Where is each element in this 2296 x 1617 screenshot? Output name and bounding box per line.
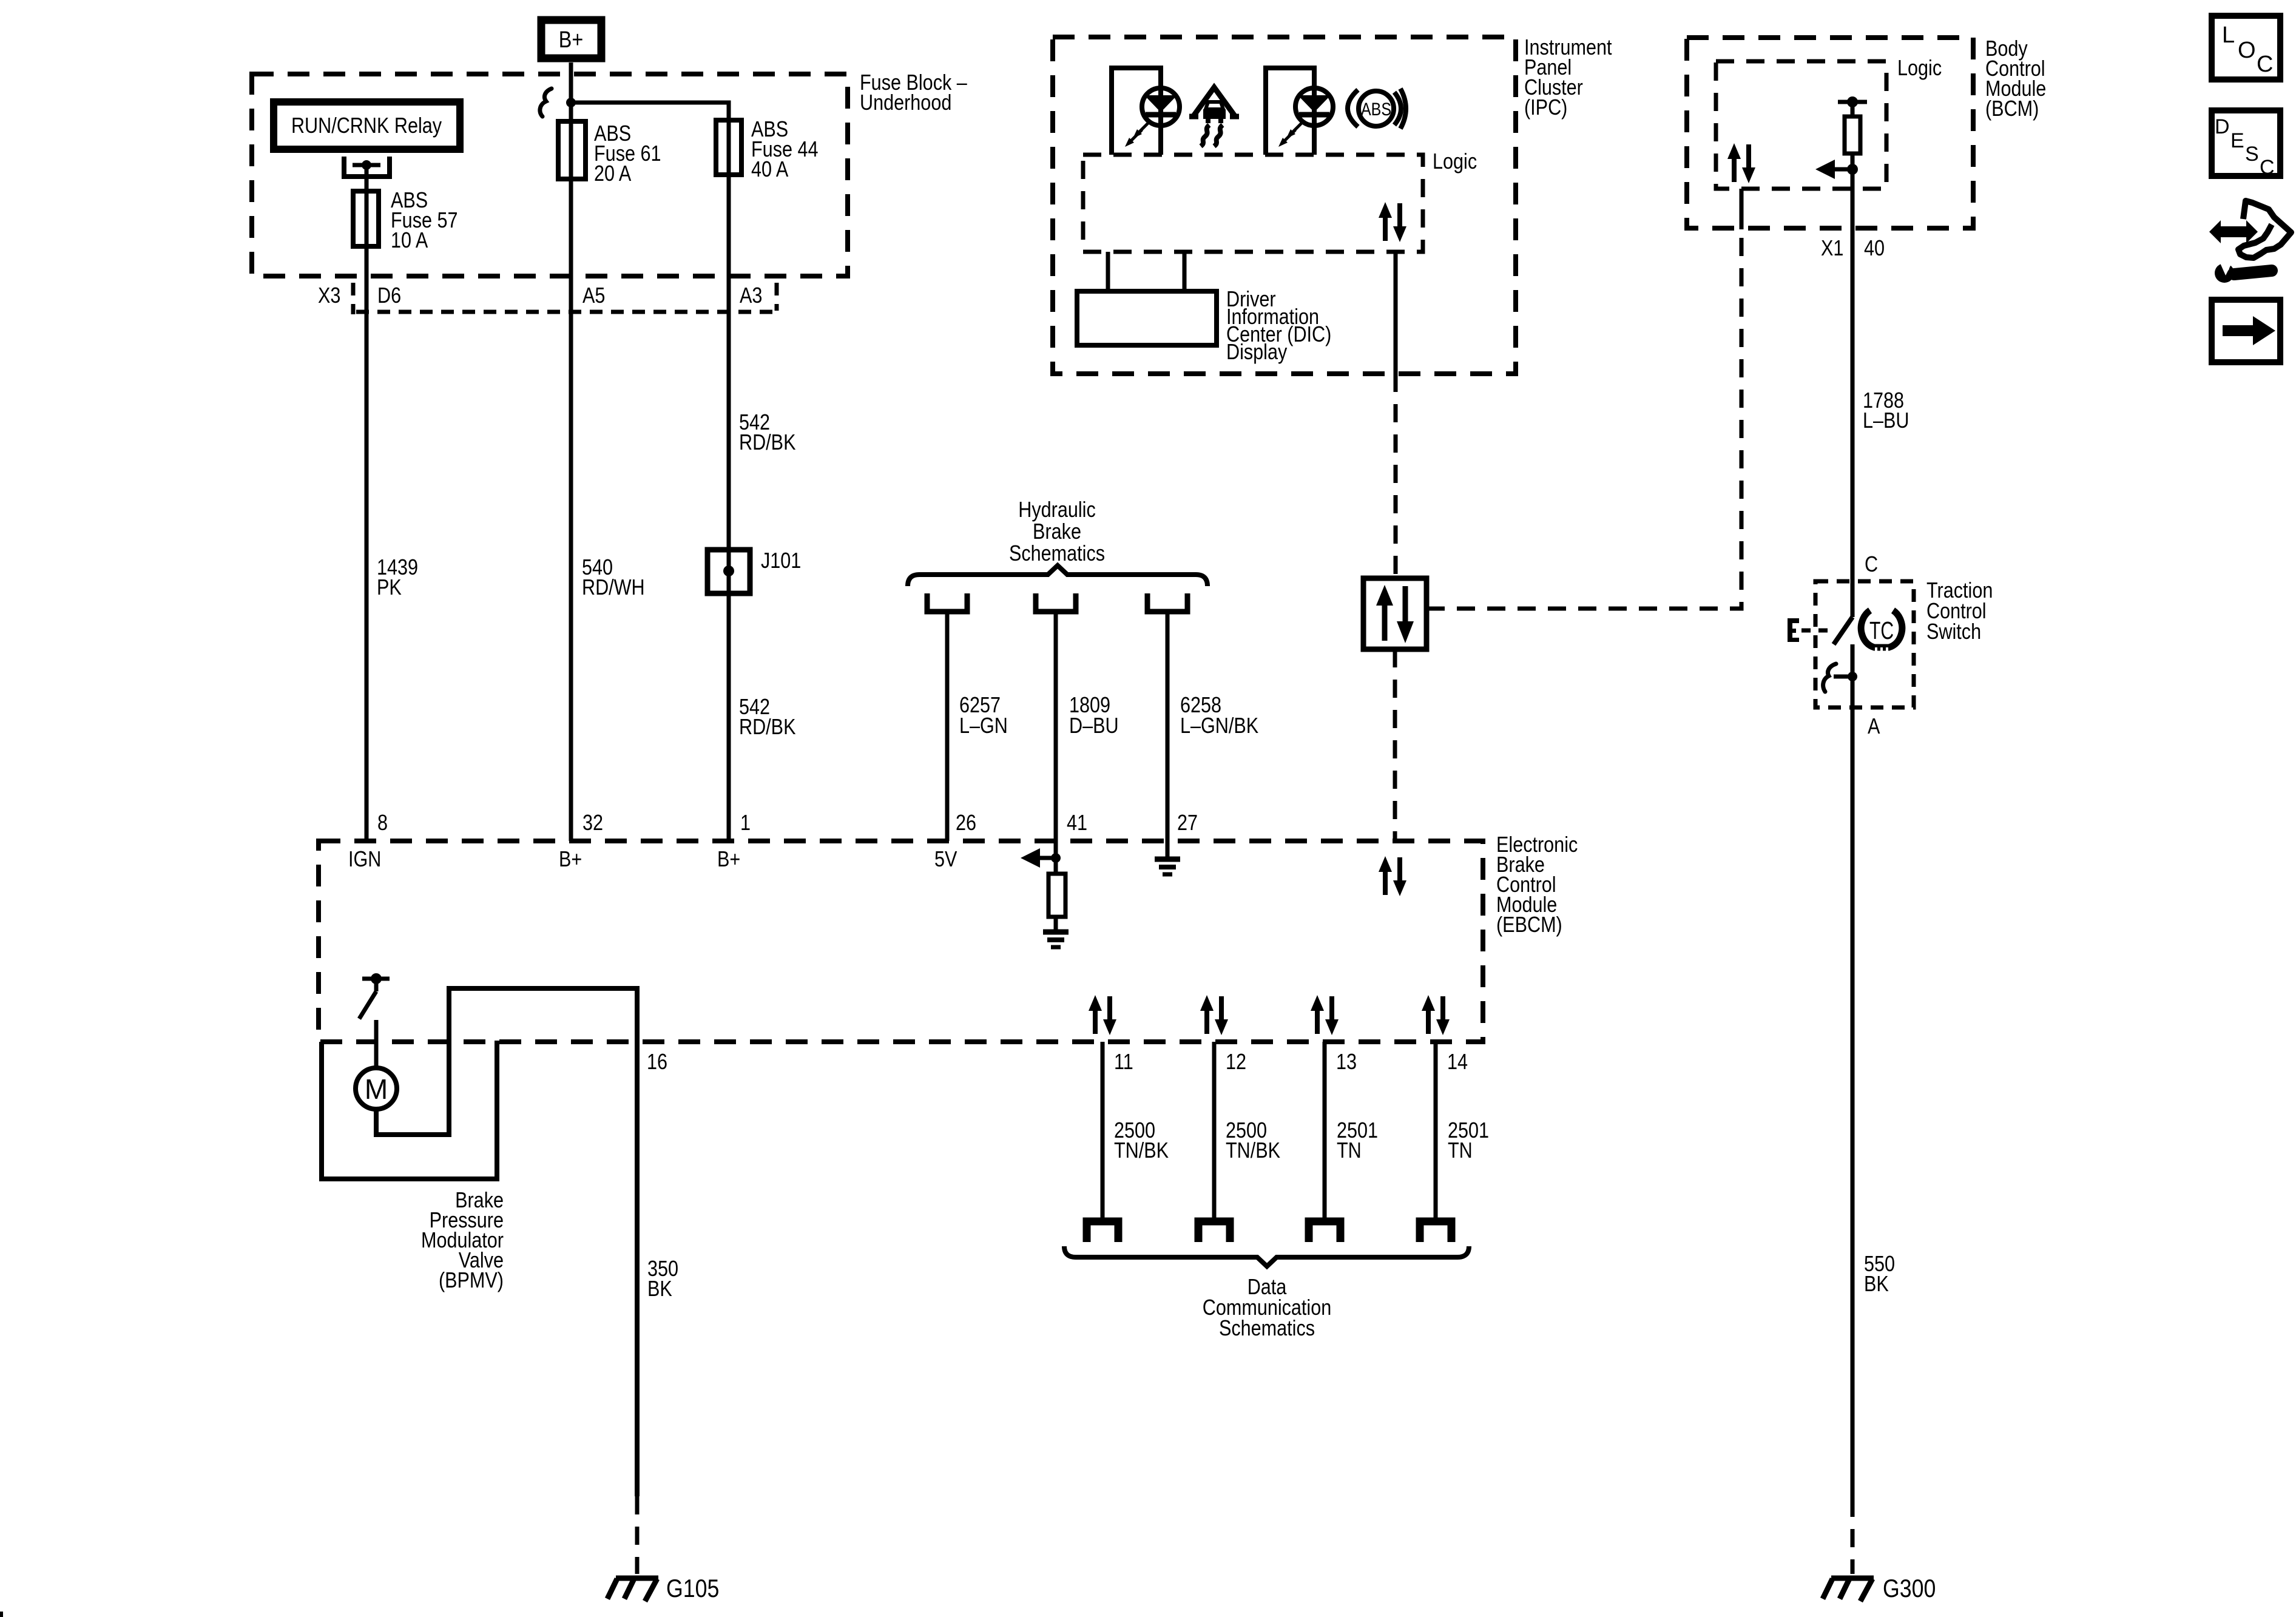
svg-text:BK: BK bbox=[647, 1277, 672, 1301]
dashed serial wire DLC box to BCM riser bbox=[1427, 229, 1741, 609]
IPC Logic dashed box bbox=[1083, 155, 1423, 252]
svg-text:10 A: 10 A bbox=[391, 229, 428, 253]
svg-text:G300: G300 bbox=[1883, 1575, 1936, 1602]
wire 2500 TN/BK pin 12 bbox=[1212, 1042, 1217, 1221]
connector cap wire 1809 bbox=[1036, 593, 1076, 612]
svg-text:D–BU: D–BU bbox=[1069, 714, 1119, 738]
svg-text:RUN/CRNK Relay: RUN/CRNK Relay bbox=[291, 114, 442, 138]
svg-text:RD/BK: RD/BK bbox=[739, 431, 795, 455]
net E label bbox=[1788, 618, 1799, 642]
fuse F57 ABS Fuse 57 10A bbox=[353, 191, 379, 246]
wire 6257 L-GN to pin 26 bbox=[945, 612, 950, 841]
svg-text:G105: G105 bbox=[666, 1575, 719, 1602]
svg-text:PK: PK bbox=[377, 576, 402, 600]
svg-text:IGN: IGN bbox=[348, 848, 381, 872]
terminal cap pin 14 bbox=[1420, 1221, 1451, 1242]
BCM pull-up resistor with supply bar bbox=[1838, 96, 1867, 154]
connector cap wire 6258 bbox=[1147, 593, 1187, 612]
DIC wires bbox=[1106, 252, 1110, 291]
svg-text:J101: J101 bbox=[761, 549, 801, 573]
switch blade bbox=[1834, 617, 1852, 644]
wire 2501 TN pin 13 bbox=[1323, 1042, 1327, 1221]
wire B+ feed down to EBCM pin 32 bbox=[569, 62, 573, 841]
svg-text:(BCM): (BCM) bbox=[1985, 97, 2039, 121]
LED indicator lamp 2 bbox=[1295, 88, 1333, 126]
svg-text:TN/BK: TN/BK bbox=[1114, 1139, 1169, 1163]
relay output terminal cup bbox=[344, 157, 390, 177]
svg-text:11: 11 bbox=[1114, 1050, 1133, 1075]
ground (internal) pin 27 bbox=[1155, 859, 1180, 874]
LED light arrows 2 bbox=[1286, 121, 1303, 138]
svg-text:20 A: 20 A bbox=[594, 162, 632, 186]
svg-text:41: 41 bbox=[1067, 811, 1087, 836]
dashed wire to G105 bbox=[635, 1496, 640, 1574]
serial data wire IPC to DLC box bbox=[1394, 252, 1398, 374]
svg-text:16: 16 bbox=[647, 1050, 667, 1075]
svg-text:TN/BK: TN/BK bbox=[1226, 1139, 1280, 1163]
svg-text:L–BU: L–BU bbox=[1863, 409, 1909, 433]
svg-text:D6: D6 bbox=[377, 284, 401, 308]
svg-text:Schematics: Schematics bbox=[1009, 542, 1105, 566]
svg-text:(EBCM): (EBCM) bbox=[1496, 913, 1562, 937]
ground G105 bbox=[607, 1578, 658, 1601]
wire 6258 L-GN/BK to pin 27 bbox=[1166, 612, 1170, 858]
svg-text:32: 32 bbox=[582, 811, 603, 836]
svg-text:40: 40 bbox=[1864, 237, 1885, 261]
svg-text:Brake: Brake bbox=[1033, 520, 1081, 544]
fuse F61 ABS Fuse 61 20A bbox=[558, 121, 586, 179]
connector X3 band bbox=[356, 310, 777, 314]
Fuse Block - Underhood dashed box bbox=[252, 74, 848, 276]
svg-text:Hydraulic: Hydraulic bbox=[1018, 498, 1095, 522]
svg-text:A5: A5 bbox=[582, 284, 605, 308]
B+ power symbol bbox=[541, 20, 601, 58]
splice clamp symbol at B+ junction bbox=[540, 89, 552, 116]
svg-text:A3: A3 bbox=[740, 284, 762, 308]
BCM dashed box bbox=[1687, 38, 1973, 228]
svg-text:TC: TC bbox=[1869, 616, 1894, 644]
BCM sense arrow left bbox=[1815, 160, 1858, 179]
svg-text:Logic: Logic bbox=[1433, 150, 1477, 174]
svg-text:O: O bbox=[2238, 38, 2256, 63]
terminal cap pin 11 bbox=[1087, 1221, 1118, 1242]
telltale loop 2 bbox=[1266, 68, 1314, 155]
icon: diagnostic pointer with wrench bbox=[2209, 201, 2291, 283]
motor M bbox=[356, 1068, 397, 1109]
svg-text:C: C bbox=[2257, 52, 2273, 77]
terminal cap pin 12 bbox=[1198, 1221, 1230, 1242]
svg-text:BK: BK bbox=[1864, 1272, 1889, 1297]
icon: forward arrow box bbox=[2212, 300, 2280, 362]
Traction Control Switch dashed box bbox=[1815, 581, 1914, 707]
serial arrows pin 12 bbox=[1200, 995, 1228, 1035]
resistor R in EBCM bbox=[1048, 874, 1065, 917]
Instrument Panel Cluster dashed box bbox=[1053, 37, 1516, 374]
svg-text:40 A: 40 A bbox=[751, 158, 789, 182]
wire 2501 TN pin 14 bbox=[1434, 1042, 1438, 1221]
svg-text:X3: X3 bbox=[318, 284, 340, 308]
wire 2500 TN/BK pin 11 bbox=[1101, 1042, 1105, 1221]
svg-text:B+: B+ bbox=[559, 27, 583, 53]
Hydraulic Brake Schematics brace bbox=[908, 565, 1207, 586]
wire switch pin A to G300 bbox=[1851, 644, 1855, 1499]
EBCM dashed box bbox=[319, 841, 1483, 1042]
terminal cap pin 13 bbox=[1309, 1221, 1340, 1242]
switch lower contact with node dot bbox=[1834, 675, 1852, 679]
wire motor to EBCM pin 16 bbox=[376, 988, 637, 1496]
pin 41 internal: junction dot and sense arrow bbox=[1051, 853, 1061, 863]
ABS telltale icon bbox=[1348, 89, 1406, 129]
wire switch to motor bbox=[374, 1020, 379, 1068]
svg-text:B+: B+ bbox=[559, 848, 582, 872]
svg-text:14: 14 bbox=[1447, 1050, 1468, 1075]
svg-text:12: 12 bbox=[1226, 1050, 1246, 1075]
wire junction to fuse 44 branch bbox=[571, 103, 729, 841]
svg-text:RD/BK: RD/BK bbox=[739, 715, 795, 740]
svg-text:L–GN: L–GN bbox=[959, 714, 1008, 738]
wire 1809 D-BU to pin 41 bbox=[1054, 612, 1058, 874]
svg-text:8: 8 bbox=[377, 811, 388, 836]
dashed link E to switch bbox=[1801, 629, 1832, 633]
BCM left pin riser bbox=[1740, 189, 1744, 229]
skid indicator icon (car in triangle) bbox=[1189, 87, 1239, 146]
svg-text:C: C bbox=[1865, 553, 1878, 577]
fuse F44 ABS Fuse 44 40A bbox=[716, 120, 741, 175]
svg-text:Schematics: Schematics bbox=[1219, 1317, 1315, 1341]
serial data arrows in IPC logic bbox=[1379, 202, 1406, 242]
svg-text:26: 26 bbox=[956, 811, 976, 836]
relay contact bar with node dot bbox=[353, 163, 380, 167]
dashed wire to G300 bbox=[1851, 1499, 1855, 1574]
serial data arrows at EBCM entry bbox=[1379, 856, 1406, 896]
svg-text:X1: X1 bbox=[1821, 237, 1843, 261]
serial arrows pin 14 bbox=[1422, 995, 1450, 1035]
LED indicator lamp 1 bbox=[1142, 88, 1180, 126]
svg-text:27: 27 bbox=[1177, 811, 1198, 836]
BCM Logic dashed box bbox=[1716, 61, 1886, 189]
svg-text:ABS: ABS bbox=[1361, 100, 1391, 120]
TC button icon bbox=[1861, 610, 1902, 652]
wire relay to EBCM pin 8 bbox=[365, 165, 369, 841]
svg-text:Switch: Switch bbox=[1926, 620, 1981, 644]
svg-text:5V: 5V bbox=[934, 848, 957, 872]
svg-text:S: S bbox=[2245, 143, 2259, 166]
svg-text:RD/WH: RD/WH bbox=[582, 576, 645, 600]
Data Communication brace bbox=[1064, 1246, 1469, 1266]
svg-text:M: M bbox=[365, 1073, 388, 1105]
ground G300 bbox=[1823, 1578, 1874, 1601]
BPMV solid box bbox=[322, 1041, 497, 1179]
svg-text:Display: Display bbox=[1226, 340, 1288, 365]
relay K: RUN/CRNK Relay box bbox=[274, 102, 460, 149]
svg-text:1: 1 bbox=[740, 811, 751, 836]
svg-text:A: A bbox=[1868, 715, 1880, 739]
svg-text:B+: B+ bbox=[717, 848, 740, 872]
BPMV pump switch bbox=[359, 973, 390, 1019]
telltale loop 1 bbox=[1112, 68, 1161, 155]
ground (internal) below resistor bbox=[1043, 932, 1069, 947]
LED light arrows 1 bbox=[1133, 121, 1150, 138]
serial arrows pin 13 bbox=[1311, 995, 1339, 1035]
splice J101 bbox=[707, 549, 801, 593]
data link symbol box bbox=[1363, 578, 1427, 649]
page artifact dot bbox=[0, 1612, 3, 1617]
connector cap wire 6257 bbox=[927, 593, 967, 612]
serial data arrows in BCM logic bbox=[1727, 143, 1755, 183]
svg-text:TN: TN bbox=[1448, 1139, 1473, 1163]
svg-text:TN: TN bbox=[1337, 1139, 1362, 1163]
DIC display box bbox=[1077, 291, 1217, 345]
icon: LOC reference box bbox=[2212, 16, 2280, 79]
svg-text:E: E bbox=[2230, 129, 2244, 152]
svg-text:L: L bbox=[2222, 22, 2235, 48]
svg-text:C: C bbox=[2260, 156, 2275, 179]
svg-text:Underhood: Underhood bbox=[860, 91, 951, 115]
wire BCM to traction switch pin C bbox=[1851, 154, 1855, 617]
icon: DESC reference box bbox=[2212, 110, 2280, 179]
dashed serial wire DLC box to EBCM bbox=[1393, 649, 1397, 841]
svg-text:13: 13 bbox=[1336, 1050, 1357, 1075]
momentary contact arc bbox=[1823, 664, 1836, 692]
node junction dot at B+ branch bbox=[566, 98, 576, 107]
svg-text:(IPC): (IPC) bbox=[1524, 96, 1567, 120]
svg-text:L–GN/BK: L–GN/BK bbox=[1180, 714, 1258, 738]
svg-text:Logic: Logic bbox=[1897, 56, 1942, 81]
svg-text:D: D bbox=[2215, 115, 2230, 138]
svg-text:(BPMV): (BPMV) bbox=[439, 1269, 504, 1293]
serial arrows pin 11 bbox=[1089, 995, 1116, 1035]
